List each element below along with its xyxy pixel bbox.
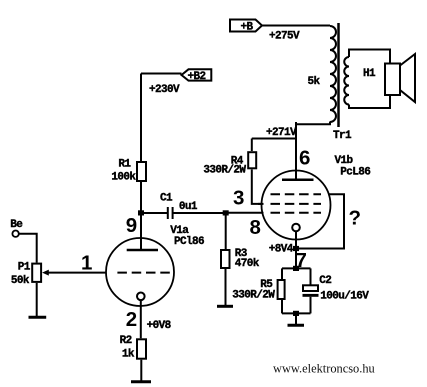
svg-text:R1: R1 bbox=[118, 159, 131, 171]
svg-text:?: ? bbox=[349, 207, 362, 230]
junction cathode node +8V4 bbox=[293, 246, 299, 251]
svg-text:+230V: +230V bbox=[149, 84, 180, 96]
svg-text:100u/16V: 100u/16V bbox=[320, 291, 369, 303]
resistor R5 body bbox=[278, 280, 285, 299]
ground stub cathode network bbox=[295, 313, 297, 324]
transformer Tr1 primary winding 5k bbox=[330, 26, 336, 122]
wire +271V rail bbox=[252, 138, 296, 140]
capacitor C1 left plate bbox=[167, 207, 169, 219]
svg-text:1: 1 bbox=[81, 251, 92, 274]
svg-text:C2: C2 bbox=[319, 275, 331, 287]
pentode plate bbox=[282, 178, 314, 181]
transformer core bbox=[337, 23, 340, 127]
pentode cathode bbox=[292, 224, 300, 232]
svg-text:0u1: 0u1 bbox=[179, 201, 198, 213]
triode V1a envelope bbox=[106, 238, 174, 306]
triode grid dashes bbox=[117, 272, 171, 274]
wire cathode network bottom rail bbox=[282, 312, 311, 314]
pentode plate lead pin 6 bbox=[295, 122, 297, 180]
power flag +B bbox=[230, 20, 262, 32]
pentode screen grid g2 dashes bbox=[271, 203, 322, 205]
svg-text:+0V8: +0V8 bbox=[147, 320, 172, 332]
svg-text:+8V4: +8V4 bbox=[269, 243, 294, 255]
svg-text:+B2: +B2 bbox=[188, 71, 206, 83]
wire R1 bottom to plate junction bbox=[140, 182, 142, 213]
svg-text:8: 8 bbox=[250, 216, 261, 239]
pentode control grid g1 dashes bbox=[271, 212, 322, 214]
speaker driver rectangle bbox=[385, 64, 400, 96]
triode cathode lead pin 2 bbox=[140, 300, 142, 338]
svg-text:+B: +B bbox=[241, 21, 254, 33]
wire R3 top lead bbox=[225, 213, 227, 249]
wire R1 top lead bbox=[140, 74, 142, 162]
wire junction to C1 left plate bbox=[141, 212, 167, 214]
wire g3 to cathode (questioned connection) bbox=[296, 194, 344, 248]
power flag +B2 bbox=[182, 69, 212, 80]
svg-text:PcL86: PcL86 bbox=[340, 167, 370, 179]
svg-text:+275V: +275V bbox=[269, 30, 300, 42]
svg-text:470k: 470k bbox=[235, 258, 260, 270]
triode plate lead pin 9 bbox=[140, 213, 142, 250]
wire Be terminal to P1 top bbox=[19, 234, 37, 263]
svg-text:6: 6 bbox=[299, 147, 310, 170]
pentode screen grid g2 left stub bbox=[258, 203, 264, 205]
transformer secondary winding bbox=[344, 57, 349, 105]
pentode V1b envelope bbox=[262, 171, 331, 240]
wire P1 bottom lead bbox=[36, 283, 38, 316]
svg-text:2: 2 bbox=[126, 308, 137, 331]
svg-text:330R/2W: 330R/2W bbox=[203, 165, 246, 177]
ground bar cathode network bbox=[288, 324, 305, 327]
pentode cathode lead pin 7 bbox=[295, 231, 297, 268]
svg-text:Be: Be bbox=[10, 219, 23, 231]
capacitor C1 right plate bbox=[172, 207, 174, 219]
wire cathode network top rail bbox=[282, 267, 311, 269]
wire R2 bottom lead bbox=[140, 360, 142, 381]
svg-text:330R/2W: 330R/2W bbox=[232, 290, 275, 302]
speaker cone bbox=[400, 54, 415, 102]
wire grid to potentiometer wiper pin 1 bbox=[48, 272, 106, 274]
svg-text:Tr1: Tr1 bbox=[333, 130, 352, 142]
svg-text:PCl86: PCl86 bbox=[174, 236, 204, 248]
svg-text:100k: 100k bbox=[111, 171, 136, 183]
svg-text:50k: 50k bbox=[11, 275, 30, 287]
svg-text:P1: P1 bbox=[18, 261, 31, 273]
capacitor C2 top plate bbox=[303, 285, 318, 291]
svg-text:R2: R2 bbox=[120, 335, 132, 347]
ground bar R3 bbox=[217, 305, 233, 308]
triode plate bbox=[127, 249, 158, 252]
ground bar P1 bbox=[29, 316, 47, 319]
junction R3 node bbox=[223, 210, 229, 215]
junction bottom rail bbox=[293, 311, 299, 316]
wire R4 bottom to screen grid g2 bbox=[252, 170, 263, 204]
svg-text:V1b: V1b bbox=[335, 155, 354, 167]
svg-text:5k: 5k bbox=[308, 76, 321, 88]
resistor R1 body bbox=[137, 162, 146, 181]
svg-text:1k: 1k bbox=[122, 348, 135, 360]
svg-text:C1: C1 bbox=[160, 192, 173, 204]
svg-text:9: 9 bbox=[126, 214, 137, 237]
wire C2 bottom lead bbox=[310, 297, 312, 314]
wire +B to transformer primary top bbox=[262, 25, 330, 27]
resistor R4 body bbox=[248, 152, 256, 168]
wire C1 to R3 node to pentode g1 bbox=[173, 212, 225, 214]
wire R5 top lead bbox=[281, 268, 283, 279]
resistor R2 body bbox=[137, 339, 146, 358]
wire g1 to coupling node pin 8 bbox=[226, 212, 264, 214]
capacitor C2 bottom plate bbox=[303, 294, 319, 297]
wire C2 top lead bbox=[310, 268, 312, 285]
wire R5 bottom lead bbox=[281, 300, 283, 313]
wire primary bottom to +271V node bbox=[296, 122, 330, 181]
svg-text:3: 3 bbox=[233, 187, 244, 210]
input terminal Be bbox=[12, 231, 18, 237]
wire plate node R1/C1/V1a bbox=[141, 73, 182, 75]
svg-text:+271V: +271V bbox=[266, 127, 297, 139]
junction top rail bbox=[293, 266, 299, 271]
junction plate node bbox=[138, 210, 144, 215]
ground bar R2 bbox=[131, 380, 151, 383]
svg-text:www.elektroncso.hu: www.elektroncso.hu bbox=[273, 362, 375, 376]
wire R4 top lead bbox=[251, 139, 253, 152]
wiper arrowhead bbox=[42, 270, 49, 276]
wire R3 bottom lead bbox=[225, 269, 227, 305]
speaker box H1 bbox=[349, 50, 390, 109]
resistor R3 body bbox=[221, 250, 230, 268]
svg-text:H1: H1 bbox=[363, 68, 376, 80]
pentode suppressor grid g3 dashes bbox=[271, 193, 322, 195]
potentiometer P1 body bbox=[32, 264, 41, 282]
triode cathode bbox=[137, 293, 145, 301]
svg-text:V1a: V1a bbox=[170, 225, 189, 237]
